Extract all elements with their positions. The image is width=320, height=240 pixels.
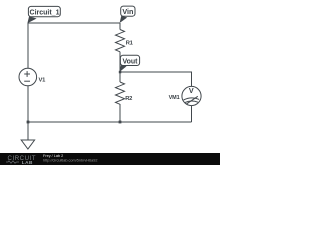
svg-text:V: V	[189, 86, 194, 95]
svg-text:Vin: Vin	[122, 7, 133, 16]
svg-text:http://circuitlab.com/5nbrvH6a: http://circuitlab.com/5nbrvH6a92	[43, 159, 97, 163]
svg-text:Vout: Vout	[122, 59, 138, 66]
svg-text:LAB: LAB	[22, 160, 33, 165]
svg-text:R1: R1	[126, 40, 134, 46]
svg-text:Circuit_1: Circuit_1	[30, 9, 60, 16]
svg-text:V1: V1	[39, 78, 47, 84]
svg-text:Frey / Lab 2: Frey / Lab 2	[43, 154, 63, 158]
svg-text:R2: R2	[125, 96, 132, 102]
svg-text:VM1: VM1	[169, 95, 180, 101]
